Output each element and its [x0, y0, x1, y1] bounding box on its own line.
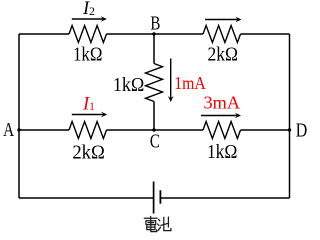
svg-text:3mA: 3mA — [204, 93, 241, 113]
svg-text:D: D — [296, 119, 308, 141]
svg-text:1kΩ: 1kΩ — [207, 141, 238, 163]
svg-text:1mA: 1mA — [174, 73, 206, 93]
svg-text:1kΩ: 1kΩ — [113, 74, 145, 96]
svg-text:B: B — [150, 13, 160, 35]
svg-text:2kΩ: 2kΩ — [72, 141, 105, 163]
svg-text:C: C — [150, 131, 160, 153]
svg-text:A: A — [3, 119, 14, 141]
svg-text:2kΩ: 2kΩ — [208, 43, 239, 65]
svg-text:1kΩ: 1kΩ — [73, 43, 103, 65]
